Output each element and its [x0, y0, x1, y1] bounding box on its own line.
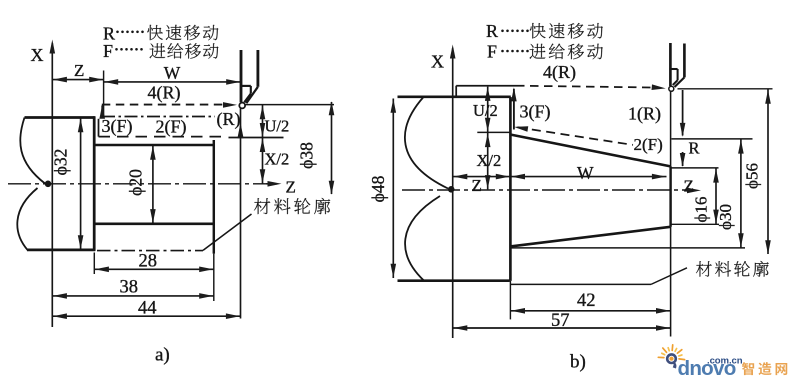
svg-text:4(R): 4(R): [543, 62, 576, 83]
origin dot fig b: [448, 186, 455, 193]
origin dot fig a: [45, 181, 52, 188]
svg-text:X/2: X/2: [265, 150, 290, 169]
svg-text:2(F): 2(F): [634, 135, 663, 154]
centerline fig a: [8, 183, 266, 185]
material contour dash-dot line fig a: [97, 250, 203, 252]
U/2 dimension fig a: [262, 105, 264, 137]
watermark pin icon: [667, 354, 676, 363]
reference line phi30 bottom fig b: [512, 247, 746, 249]
svg-text:Z: Z: [74, 61, 84, 80]
U/2 dimension fig b: [487, 87, 489, 132]
svg-text:F: F: [487, 42, 497, 62]
38 dimension fig a: [52, 295, 214, 297]
svg-text:4(R): 4(R): [148, 82, 181, 103]
workpiece phi32 top edge fig a: [25, 116, 95, 119]
phi20 dimension fig a: [152, 145, 154, 223]
raw bar right face / extension fig a: [240, 108, 242, 318]
first cut line dash-dot fig a: [102, 116, 215, 118]
bar top edge fig b: [398, 95, 511, 98]
phi30 dimension fig b: [740, 139, 742, 247]
extension line between Z and W dims fig a: [103, 71, 105, 116]
svg-text:ϕ20: ϕ20: [126, 169, 146, 196]
watermark pin tail: [673, 362, 677, 368]
svg-text:Z: Z: [286, 178, 296, 197]
svg-text:44: 44: [138, 299, 157, 319]
phi20 right face fig a: [213, 140, 215, 254]
label material contour fig b: [696, 261, 769, 277]
Z offset dimension fig a: [52, 79, 103, 81]
svg-text:W: W: [577, 163, 594, 183]
svg-text:a): a): [155, 345, 170, 366]
bar bottom edge fig b: [398, 279, 510, 282]
svg-text:28: 28: [139, 252, 158, 272]
taper top edge fig b: [511, 135, 671, 167]
W dimension fig b: [510, 176, 666, 178]
svg-text:U/2: U/2: [473, 101, 498, 120]
tool shank fig a: [240, 50, 243, 102]
57 dimension fig b: [453, 327, 671, 329]
svg-text:X: X: [31, 45, 44, 65]
svg-text:ϕ16: ϕ16: [692, 197, 711, 223]
X/2 dimension fig a: [262, 138, 264, 184]
Z axis arrow fig a: [266, 183, 277, 185]
second pass corner fig a: [98, 119, 100, 137]
phi38 dimension fig a: [331, 102, 333, 194]
S-shaped bar break fig a: [17, 118, 45, 250]
W dimension fig a: [104, 81, 241, 83]
watermark starburst rays: [658, 345, 684, 360]
tool nose circle fig b: [669, 86, 674, 91]
Z offset dimension fig b: [453, 176, 511, 178]
reference line phi30 top fig b: [672, 138, 753, 140]
material contour callout leader fig a: [203, 214, 252, 250]
svg-text:b): b): [570, 352, 586, 373]
svg-text:ϕ30: ϕ30: [716, 204, 735, 230]
reference line phi16 top fig b: [671, 167, 719, 169]
svg-text:57: 57: [551, 311, 570, 331]
svg-text:.com.cn: .com.cn: [707, 356, 743, 367]
svg-text:X: X: [431, 52, 444, 72]
path 3(F) retract fig b: [513, 89, 515, 130]
material contour callout leader fig b: [651, 268, 687, 285]
phi20 top edge fig a: [94, 144, 214, 147]
svg-text:38: 38: [120, 278, 139, 298]
42 dim left extension fig b: [509, 281, 511, 320]
step face fig a: [93, 116, 96, 251]
U/2 reference line fig b: [477, 131, 511, 133]
phi32 dimension fig a: [80, 118, 82, 250]
retract up arrowhead on right face fig a: [237, 123, 243, 138]
svg-text:ϕ38: ϕ38: [297, 142, 317, 169]
right face extension up to tool fig b: [670, 92, 672, 167]
svg-text:2(F): 2(F): [156, 117, 187, 138]
svg-text:ϕ56: ϕ56: [743, 163, 762, 189]
extension line from tool start to phi38 dim fig a: [246, 104, 335, 106]
svg-text:ϕ32: ϕ32: [51, 149, 71, 176]
svg-text:1(R): 1(R): [628, 104, 661, 125]
workpiece phi32 bottom edge fig a: [27, 249, 95, 252]
42 dimension fig b: [510, 310, 670, 312]
right face extension down to 57 dim fig b: [670, 227, 672, 337]
Z axis arrow fig b: [687, 188, 701, 194]
28 dim left extension fig a: [93, 253, 95, 275]
step face fig b: [509, 97, 512, 281]
svg-text:3(F): 3(F): [520, 102, 551, 123]
svg-text:R: R: [486, 21, 498, 41]
svg-text:Z: Z: [472, 176, 482, 195]
tool shank fig b: [669, 43, 672, 86]
path 4(R) line fig b: [456, 85, 516, 87]
svg-text:3(F): 3(F): [102, 116, 133, 137]
svg-text:ϕ48: ϕ48: [368, 175, 388, 202]
second cut line right solid part fig a: [229, 137, 284, 139]
material contour thin line fig b: [511, 283, 651, 285]
44 dimension fig a: [52, 315, 240, 317]
tool nose circle fig a: [239, 103, 245, 109]
path 1(R) plunge fig b: [682, 90, 684, 136]
svg-text:F: F: [103, 41, 113, 61]
X axis fig b: [452, 48, 454, 338]
watermark text zhizaowang: [742, 362, 787, 375]
path start corner fig b: [455, 86, 457, 97]
reference line phi16 bottom fig b: [671, 223, 719, 225]
phi48 dimension fig b: [392, 99, 394, 279]
path 4(R) dashed rapid line fig a: [102, 104, 231, 106]
svg-text:W: W: [164, 63, 181, 83]
svg-text:(R): (R): [217, 109, 241, 130]
svg-text:42: 42: [577, 291, 596, 311]
svg-text:R: R: [689, 139, 700, 158]
path 3(F) retract up-arrow fig a: [101, 106, 103, 117]
extension of right face down to 38 dim fig a: [213, 254, 215, 301]
28 dimension fig a: [94, 268, 214, 270]
path 2(F) dashed taper cut fig b: [518, 127, 634, 145]
svg-text:Z: Z: [684, 177, 694, 196]
svg-text:X/2: X/2: [477, 151, 502, 170]
phi20 bottom edge fig a: [94, 223, 214, 226]
taper bottom edge fig b: [512, 227, 671, 247]
extension from tool start to phi56 dim fig b: [678, 88, 773, 90]
R retract dimension fig b: [682, 152, 684, 166]
centerline fig b: [402, 189, 689, 191]
phi16 dimension fig b: [715, 168, 717, 224]
label material contour fig a: [254, 198, 330, 214]
phi56 dimension fig b: [767, 90, 769, 255]
X axis fig a: [51, 43, 53, 327]
second cut dashed line fig a: [99, 136, 225, 138]
X/2 dimension fig b: [487, 133, 489, 190]
svg-text:U/2: U/2: [265, 117, 290, 136]
part right face fig b: [669, 166, 671, 226]
S-shaped bar break fig b: [405, 97, 448, 281]
